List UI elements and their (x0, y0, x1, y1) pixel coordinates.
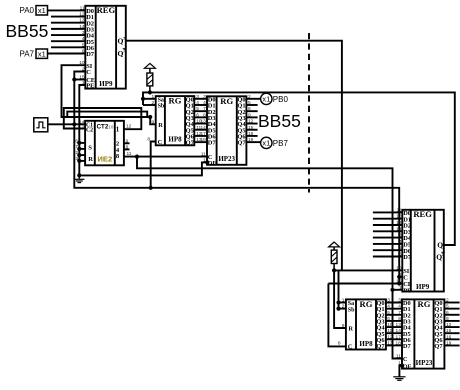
svg-text:C: C (158, 139, 163, 146)
junction clock / DD1.C net (72, 122, 76, 126)
junction S2 (77, 147, 81, 151)
wire DD2 out8 to DD4.C (124, 156, 207, 158)
DD4 pin labels C OE (208, 154, 217, 167)
wires DD6 Q0-Q7 to DD7 D0-D7 (386, 303, 402, 346)
svg-text:RG: RG (418, 299, 431, 309)
svg-text:Q7: Q7 (186, 140, 195, 147)
junction DD5.PE (390, 288, 394, 292)
wire DD4.Q7 to PB7 buffer (246, 141, 260, 143)
svg-text:RG: RG (169, 96, 182, 106)
wire stub DD1.D1 (51, 16, 85, 18)
svg-text:D7: D7 (403, 343, 412, 350)
junction R2 / SI net (332, 268, 336, 272)
wire to DD5.PE pin (393, 289, 403, 291)
svg-text:R: R (348, 326, 353, 333)
DD4 input labels D0-D7 (208, 96, 217, 146)
DD1 output labels Q7 /Q7 (118, 36, 127, 58)
wire DD7.OE to ground (399, 366, 402, 377)
junction R1 / feedback wire (148, 90, 152, 94)
svg-text:D7: D7 (403, 254, 412, 261)
resistor R1 (pull-up, hatched) (147, 68, 153, 93)
svg-text:PB7: PB7 (273, 139, 289, 148)
svg-text:PA0: PA0 (19, 6, 34, 15)
register DD4 (RG ИР23 middle) body (207, 96, 246, 165)
svg-text:OE: OE (403, 364, 412, 370)
wire clock to DD2.C1 (48, 123, 85, 125)
svg-text:15: 15 (396, 279, 402, 285)
svg-text:Sb: Sb (348, 307, 355, 313)
DD7 pin numbers (396, 298, 452, 367)
wire to DD5.C pin (399, 276, 402, 278)
svg-text:x1: x1 (262, 95, 270, 104)
register DD5 (REG ИР9 bottom) body (402, 209, 444, 291)
junction out8 / wire A (135, 155, 139, 159)
wire DD5.SI row (334, 269, 402, 271)
svg-text:Q7: Q7 (237, 140, 246, 147)
junction DD5.C (397, 275, 401, 279)
svg-text:1: 1 (399, 285, 402, 291)
buffer x1 PA7 (36, 49, 48, 59)
DD6 output labels Q0-Q7 (376, 300, 385, 350)
svg-text:D7: D7 (86, 51, 95, 58)
svg-text:REG: REG (97, 5, 116, 15)
wire stubs DD2 S and R pins (79, 143, 85, 161)
svg-text:REG: REG (413, 209, 432, 219)
svg-text:PB0: PB0 (273, 95, 289, 104)
wire stub DD1.D3 (51, 28, 85, 30)
junction S1 (77, 141, 81, 145)
DD6 pin labels Sa Sb R C (348, 301, 355, 350)
svg-text:BB55: BB55 (6, 21, 49, 41)
svg-text:Sb: Sb (158, 104, 165, 110)
wire to DD6.Sb (339, 308, 346, 310)
svg-text:10: 10 (396, 265, 402, 271)
svg-text:R: R (158, 122, 163, 129)
junction R2pin (77, 159, 81, 163)
svg-text:PA7: PA7 (19, 49, 34, 58)
svg-text:ИР8: ИР8 (168, 136, 182, 144)
power VCC symbol (left) (144, 63, 155, 68)
junction SI / DD3.R (148, 115, 152, 119)
junction DD6.Sb (336, 307, 340, 311)
DD2 output labels 1 2 4 8 (116, 125, 120, 160)
wire to DD3.R (150, 117, 156, 124)
DD3 pin numbers (147, 94, 202, 143)
junction Sa branch (141, 97, 145, 101)
svg-text:ИР8: ИР8 (359, 340, 373, 348)
junction ground chain (77, 173, 81, 177)
svg-text:11: 11 (396, 354, 401, 360)
DD4 pin numbers (200, 94, 253, 164)
svg-text:BB55: BB55 (258, 111, 301, 131)
register DD1 (REG ИР9 top) body (85, 5, 126, 88)
wire PA7 to DD1.D7 (48, 52, 86, 54)
svg-text:x1: x1 (262, 139, 270, 148)
register DD7 (RG ИР23 bottom) body (402, 299, 444, 368)
svg-text:D7: D7 (208, 140, 217, 147)
DD7 input labels D0-D7 (403, 300, 412, 350)
wire stub DD1.D2 (51, 22, 85, 24)
svg-text:C2: C2 (86, 128, 93, 134)
wire stubs DD5.D0-D7 (373, 212, 402, 256)
svg-text:RG: RG (360, 299, 373, 309)
DD5 output labels Q7 /Q7 (436, 240, 445, 261)
svg-text:PE: PE (86, 83, 94, 90)
wire DD3.C down to clock net (151, 142, 156, 188)
DD7 output labels Q0-Q7 (434, 300, 443, 350)
junction DD7.OE (400, 363, 404, 367)
wire DD1.Q7 to DD5.SI (126, 41, 342, 271)
DD4 output labels Q0-Q7 (237, 96, 246, 146)
svg-text:x1: x1 (38, 6, 46, 15)
resistor R2 (pull-up, hatched) (331, 247, 337, 271)
DD5 control pin labels SI C CE PE (403, 268, 412, 294)
wire SI net to DD6.Sa/Sb (338, 270, 340, 308)
DD5 input pin labels D0-D7 (403, 210, 412, 261)
wire DD1.C down to clock net (74, 72, 85, 125)
svg-text:Sa: Sa (158, 97, 164, 103)
DD7 pin labels C OE (403, 356, 412, 370)
svg-text:C: C (208, 154, 213, 161)
wire stubs DD4 Q1-Q6 (246, 105, 257, 136)
ground symbol (left) (74, 175, 84, 182)
svg-text:Q7: Q7 (434, 343, 443, 350)
shift register DD3 (RG ИР8 middle) body (156, 96, 195, 146)
wire stub DD1.D4 (51, 34, 85, 36)
DD3 output labels Q0-Q7 (186, 96, 195, 146)
DD2 pin labels C1 C2 S R (86, 122, 93, 163)
wire to DD3.Sa (143, 98, 156, 100)
svg-text:PE: PE (403, 287, 411, 294)
junction DD6.Sa (336, 300, 340, 304)
DD1 control pin labels SI C CE PE (86, 63, 95, 90)
wire to DD3.Sb (143, 104, 156, 106)
wires DD3 Q0-Q7 to DD4 D0-D7 (194, 99, 207, 142)
svg-text:C: C (403, 356, 408, 363)
wire stub DD2 out4 (124, 148, 130, 150)
shift register DD6 (RG ИР8 bottom) body (346, 299, 386, 350)
svg-text:ИР9: ИР9 (99, 80, 113, 88)
svg-text:C: C (86, 69, 91, 76)
DD1 left pin numbers (79, 5, 85, 86)
svg-text:9: 9 (342, 323, 345, 329)
svg-text:ИЕ2: ИЕ2 (97, 154, 112, 163)
wire to DD7.C (393, 290, 403, 359)
ground symbol (right) (393, 377, 405, 381)
clock generator G1 (34, 118, 48, 132)
svg-text:Q7: Q7 (376, 343, 385, 350)
wire DD1.CE to clock net (74, 79, 85, 81)
wire stub DD2 out2 (124, 142, 130, 144)
junction DD4.OE (205, 160, 209, 164)
DD1 input pin labels D0-D7 (86, 8, 95, 58)
svg-text:S: S (88, 144, 92, 151)
counter DD2 (СТ2 ИЕ2) body (85, 121, 124, 166)
wire A shift-clock to DD5.PE (137, 157, 393, 290)
svg-text:R: R (88, 156, 93, 163)
wire stub DD1.D5 (51, 40, 85, 42)
wire B clock net long run (74, 124, 399, 277)
wire clock to DD6.C (328, 284, 346, 347)
DD2 pin numbers (75, 119, 131, 162)
svg-text:Sa: Sa (348, 301, 354, 307)
wire to DD6.Sa (339, 302, 346, 304)
wire DD5.CE row (328, 283, 402, 285)
wire DD1.PE down to ground chain (79, 85, 85, 175)
DD6 pin numbers (338, 298, 393, 347)
svg-text:1: 1 (342, 298, 345, 304)
svg-text:C: C (348, 343, 353, 350)
svg-text:8: 8 (338, 341, 341, 347)
buffer x1 PA0 (36, 6, 48, 16)
svg-text:1: 1 (116, 125, 120, 133)
svg-text:ИР9: ИР9 (416, 283, 430, 291)
wire DD2 out1 loop to DD2.C2 (64, 108, 142, 129)
wire DD1.SI run (62, 65, 151, 117)
svg-text:x1: x1 (38, 50, 46, 59)
wire feedback DD5.Q7 to DD3.Sa/Sb (143, 92, 455, 245)
DD3 pin labels Sa Sb R C (158, 97, 165, 146)
junction DD5.CE (397, 281, 401, 285)
svg-text:ИР23: ИР23 (416, 359, 433, 367)
wire SI net to DD6.R (334, 270, 346, 328)
junction CE / C vertical (72, 77, 76, 81)
buffer x1 PB0 (261, 93, 272, 104)
svg-text:ИР23: ИР23 (218, 155, 235, 163)
junction R1pin (77, 153, 81, 157)
wire ground chain to DD4.OE (79, 162, 207, 175)
svg-text:RG: RG (220, 96, 233, 106)
DD5 left pin numbers (396, 207, 402, 290)
power VCC symbol (right) (329, 242, 340, 247)
svg-text:2: 2 (342, 304, 345, 310)
wire PA0 to DD1.D0 (48, 9, 86, 11)
buffer x1 PB7 (261, 137, 272, 148)
svg-text:CT210: CT210 (97, 124, 114, 131)
wire DD4.Q0 to PB0 buffer (246, 98, 260, 100)
junction clock / DD3.C (149, 186, 153, 190)
wire SI jog detour (67, 112, 147, 117)
wire stub DD1.D6 (51, 46, 85, 48)
svg-text:2: 2 (399, 272, 402, 278)
wire stubs DD7.Q0-Q7 outputs (444, 303, 459, 346)
dashed interface boundary line (308, 33, 310, 193)
